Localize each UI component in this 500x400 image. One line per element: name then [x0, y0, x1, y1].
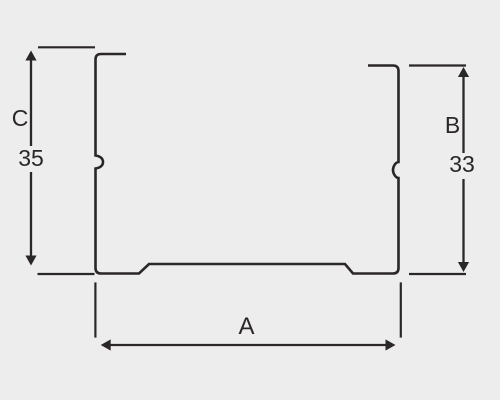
- svg-text:B: B: [445, 112, 460, 138]
- extension line top-right: [409, 64, 466, 66]
- arrowhead C top: [25, 51, 36, 61]
- dimension line C (left vertical): [30, 58, 32, 146]
- arrowhead B top: [458, 67, 469, 77]
- svg-text:A: A: [238, 313, 254, 340]
- extension line below-left vertical: [94, 282, 96, 337]
- extension line top-left: [38, 46, 95, 48]
- arrowhead A left: [101, 339, 111, 350]
- extension line below-right vertical: [400, 282, 402, 337]
- svg-text:C: C: [12, 105, 29, 131]
- profile outline (C-stud cross-section): [96, 54, 399, 274]
- svg-text:35: 35: [18, 145, 44, 171]
- arrowhead C bottom: [25, 256, 36, 266]
- dimension line A (bottom horizontal): [107, 344, 389, 346]
- extension line bottom-left: [38, 273, 95, 275]
- dimension line B (right vertical): [462, 73, 464, 153]
- extension line bottom-right: [409, 273, 466, 275]
- arrowhead A right: [386, 339, 396, 350]
- svg-text:33: 33: [449, 151, 475, 177]
- arrowhead B bottom: [458, 262, 469, 272]
